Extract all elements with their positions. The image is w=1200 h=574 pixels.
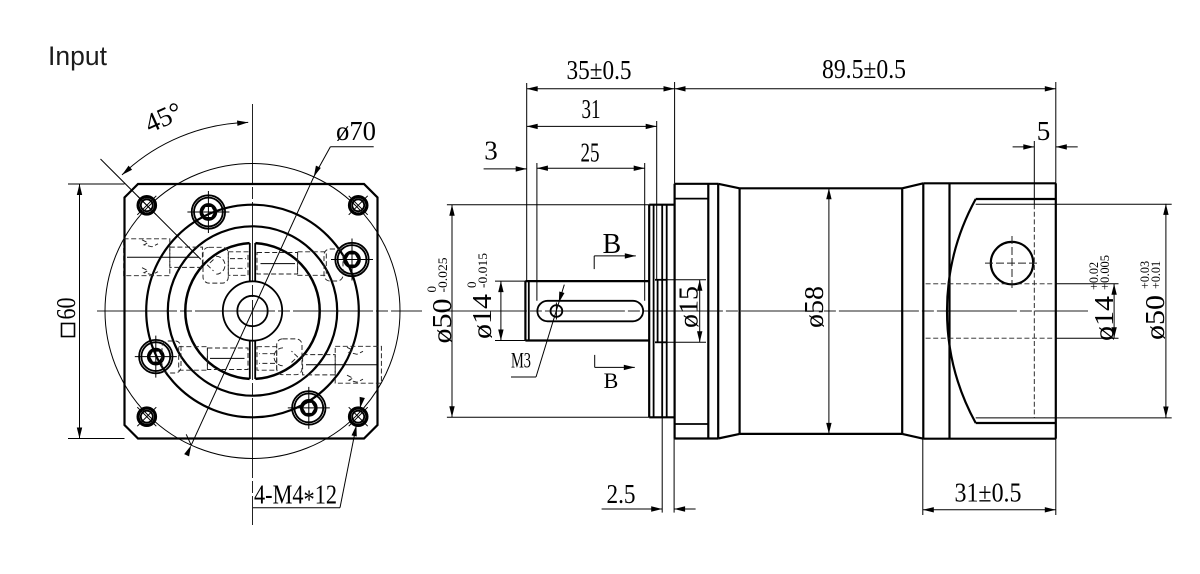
svg-text:35±0.5: 35±0.5 [567,55,632,85]
svg-text:+0.01: +0.01 [1148,261,1163,289]
svg-text:60: 60 [51,298,81,320]
svg-text:ø70: ø70 [336,116,376,146]
svg-text:-0.015: -0.015 [475,253,490,288]
svg-text:5: 5 [1037,116,1051,146]
svg-text:89.5±0.5: 89.5±0.5 [822,54,906,84]
svg-text:ø50: ø50 [427,299,457,344]
svg-text:ø14: ø14 [1089,295,1119,341]
svg-text:Input: Input [48,41,108,71]
svg-text:ø15: ø15 [674,286,704,328]
svg-text:4-M4*12: 4-M4*12 [254,480,337,515]
svg-text:B: B [604,368,619,393]
svg-text:31±0.5: 31±0.5 [955,478,1022,508]
svg-text:ø14: ø14 [467,293,497,339]
svg-text:-0.025: -0.025 [435,258,450,293]
svg-text:ø58: ø58 [799,286,829,328]
svg-text:ø50: ø50 [1140,295,1170,340]
svg-text:3: 3 [484,136,498,166]
svg-text:M3: M3 [511,348,531,373]
svg-text:2.5: 2.5 [607,479,636,509]
svg-text:B: B [603,229,622,260]
svg-text:31: 31 [582,94,601,124]
svg-text:+0.005: +0.005 [1097,255,1112,290]
svg-text:25: 25 [581,138,600,168]
